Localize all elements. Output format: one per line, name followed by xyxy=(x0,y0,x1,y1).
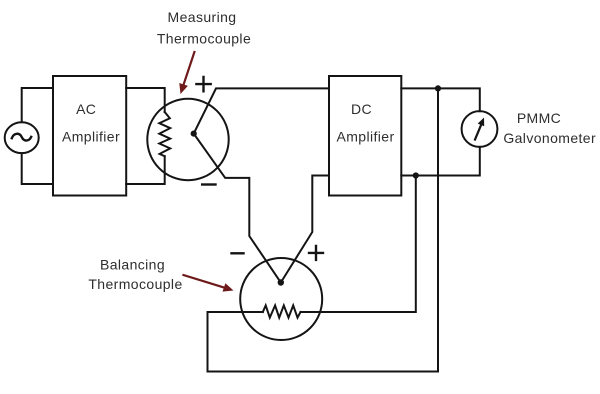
junction dot (bottom output) xyxy=(413,172,419,178)
wire: balancing heater left lead xyxy=(208,311,263,313)
wire: heater bottom to AC amp output bottom xyxy=(126,156,165,184)
balancing thermocouple circle xyxy=(240,258,322,340)
wire: thermocouple + lead to DC amplifier xyxy=(194,88,329,133)
measuring thermocouple circle xyxy=(147,99,228,180)
heater resistor (measuring thermocouple) xyxy=(159,112,170,156)
wire: DC amp output bottom to galvanometer xyxy=(401,147,480,176)
junction dot (balancing thermocouple) xyxy=(278,279,284,285)
DC Amplifier block U2 xyxy=(329,76,401,196)
wire: thermocouple - lead to balancing junction xyxy=(194,134,281,283)
AC source V1 xyxy=(5,122,39,153)
minus sign (balancing) xyxy=(232,252,244,254)
svg-text:Amplifier: Amplifier xyxy=(62,129,120,145)
svg-text:Amplifier: Amplifier xyxy=(336,129,394,145)
junction dot (top output) xyxy=(435,85,441,91)
balancing heater resistor xyxy=(263,305,301,317)
plus sign (measuring) xyxy=(196,77,210,91)
svg-text:Thermocouple: Thermocouple xyxy=(88,276,182,292)
AC Amplifier block U1 xyxy=(53,76,126,196)
svg-text:Galvonometer: Galvonometer xyxy=(503,130,596,146)
wire: DC amp input bottom to balancing + lead xyxy=(281,176,329,283)
wire: feedback right vertical (top dot to bottom loop) xyxy=(437,88,439,371)
wire: bottom loop xyxy=(208,312,439,372)
wire: source bottom to AC amplifier input bottom xyxy=(22,153,53,184)
svg-text:DC: DC xyxy=(351,101,372,117)
arrow to balancing thermocouple xyxy=(184,275,234,292)
junction dot (measuring thermocouple) xyxy=(191,131,197,137)
arrow to measuring thermocouple xyxy=(179,52,194,94)
galvanometer needle xyxy=(475,124,482,140)
svg-text:Balancing: Balancing xyxy=(100,257,165,273)
svg-text:Thermocouple: Thermocouple xyxy=(157,31,251,47)
plus sign (balancing) xyxy=(309,246,323,260)
minus sign (measuring) xyxy=(202,183,215,185)
svg-text:AC: AC xyxy=(76,101,96,117)
wire: balancing heater right lead to bottom junction xyxy=(301,176,416,313)
svg-text:Measuring: Measuring xyxy=(168,9,237,25)
wire: DC amp output top to galvanometer xyxy=(401,88,480,111)
PMMC galvanometer M1 xyxy=(462,111,498,147)
wire: source top to AC amplifier input top xyxy=(22,88,53,122)
AC source sine symbol xyxy=(12,134,31,141)
wire: AC amp output top to heater xyxy=(126,88,165,112)
svg-text:PMMC: PMMC xyxy=(517,110,561,126)
